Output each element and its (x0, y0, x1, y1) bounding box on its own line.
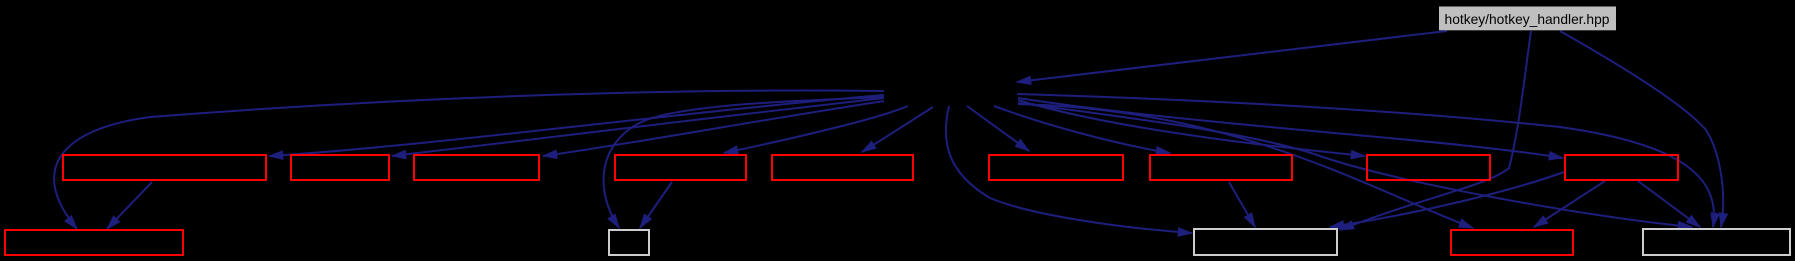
svg-text:hotkey/hotkey_handler.hpp: hotkey/hotkey_handler.hpp (1445, 12, 1610, 27)
